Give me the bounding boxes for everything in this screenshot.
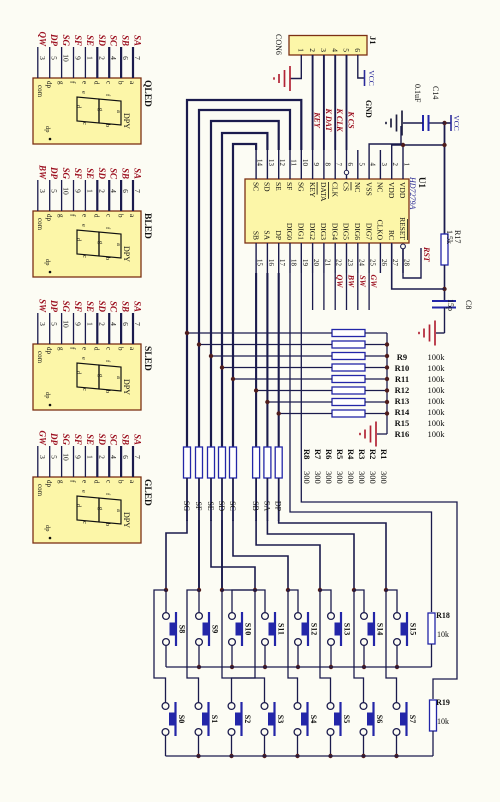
svg-text:6: 6 — [121, 322, 130, 326]
wire pin c of QLED — [108, 47, 110, 78]
wire R9 to rail — [365, 332, 387, 334]
7-segment display QLED — [33, 78, 152, 144]
capacitor C14 0.1uF — [403, 84, 445, 131]
wire pin g of SLED — [61, 313, 63, 344]
wire jog to switch S15 — [386, 590, 397, 613]
svg-text:R14: R14 — [395, 407, 410, 417]
svg-text:SB: SB — [121, 301, 131, 312]
node rail2 junction — [361, 754, 365, 758]
svg-text:DPY: DPY — [122, 379, 131, 395]
wire jog to switch S10 — [232, 590, 255, 613]
wire S1 to rail2 — [198, 735, 200, 756]
ground C8 ground — [419, 321, 435, 346]
wire VDD feed to U1 pins 1,2 — [392, 145, 445, 150]
node key column SF junction — [197, 588, 201, 592]
svg-text:300: 300 — [335, 471, 345, 484]
svg-text:S1: S1 — [210, 715, 219, 723]
svg-text:SD: SD — [217, 501, 226, 511]
svg-text:300: 300 — [346, 471, 356, 484]
svg-text:NC: NC — [376, 182, 385, 192]
svg-text:GW: GW — [369, 275, 378, 289]
svg-text:VCC: VCC — [452, 115, 461, 130]
svg-text:100k: 100k — [428, 429, 446, 439]
svg-text:a: a — [115, 243, 122, 246]
svg-text:SB: SB — [251, 231, 260, 240]
wire SG after resistor — [186, 478, 188, 521]
wire SC fan corner — [233, 520, 288, 590]
svg-text:S14: S14 — [376, 623, 385, 635]
wire S12 to rail1 — [297, 645, 299, 667]
ground C14 ground — [386, 111, 402, 136]
svg-text:e: e — [80, 224, 87, 227]
svg-text:SE: SE — [85, 35, 95, 46]
resistor R1 300 body — [184, 447, 191, 478]
node rail junction — [385, 377, 389, 381]
wire R12 to rail — [365, 367, 387, 369]
svg-text:DPY: DPY — [122, 512, 131, 528]
svg-text:R19: R19 — [436, 698, 450, 707]
svg-text:S3: S3 — [276, 715, 285, 723]
svg-text:13: 13 — [267, 159, 275, 167]
wire pin c of BLED — [108, 180, 110, 211]
node rail2 junction — [262, 754, 266, 758]
power VCC main — [445, 122, 452, 124]
resistor R8 300 body — [275, 447, 282, 478]
node SD tap — [220, 365, 224, 369]
wire pin g of BLED — [61, 180, 63, 211]
svg-text:DIG7: DIG7 — [364, 223, 373, 240]
node VDD tap — [442, 143, 446, 147]
svg-text:BW: BW — [37, 164, 47, 180]
wire U1 pin 25 — [368, 273, 370, 310]
pin 19 DIG1 of U1 — [297, 223, 309, 273]
svg-text:16: 16 — [267, 259, 275, 267]
svg-text:5: 5 — [50, 322, 59, 326]
svg-text:g: g — [57, 480, 65, 484]
wire VSS to ground — [369, 126, 401, 150]
svg-text:SA: SA — [133, 434, 143, 445]
svg-text:SC: SC — [228, 501, 237, 511]
switch S5 — [327, 702, 351, 736]
svg-text:10k: 10k — [437, 630, 449, 639]
svg-text:1: 1 — [85, 56, 94, 60]
wire J1 to U1 net KEY — [312, 55, 314, 150]
svg-text:SD: SD — [263, 182, 272, 192]
wire SF after resistor — [198, 478, 200, 590]
svg-text:K CLK: K CLK — [335, 108, 344, 133]
svg-text:20: 20 — [312, 259, 320, 267]
svg-text:2: 2 — [391, 163, 399, 167]
wire SE after resistor — [210, 478, 212, 521]
svg-text:8: 8 — [323, 163, 331, 167]
wire pin d of QLED — [96, 47, 98, 78]
wire J1 to U1 net K CS — [346, 55, 348, 150]
svg-text:SD: SD — [97, 433, 107, 445]
wire R14 to rail — [365, 390, 387, 392]
wire R11 to SE line — [211, 355, 332, 357]
svg-text:300: 300 — [357, 471, 367, 484]
svg-text:SC: SC — [109, 301, 119, 313]
svg-text:SD: SD — [97, 167, 107, 179]
svg-text:SB: SB — [251, 501, 260, 511]
pin 27 RC of U1 — [387, 230, 399, 273]
svg-text:S5: S5 — [342, 715, 351, 723]
wire pin com of BLED — [37, 180, 39, 211]
svg-text:R11: R11 — [395, 374, 409, 384]
switch S9 — [196, 612, 220, 646]
wire R19 to key rail 2 — [432, 731, 434, 756]
svg-text:24: 24 — [357, 259, 365, 267]
svg-text:SF: SF — [194, 502, 203, 511]
svg-text:R13: R13 — [395, 396, 410, 406]
connector J1 CON6 — [274, 34, 378, 55]
wire R11 to rail — [365, 355, 387, 357]
svg-text:SF: SF — [73, 168, 83, 179]
svg-text:S10: S10 — [244, 623, 253, 635]
svg-text:c: c — [81, 521, 88, 524]
wire R13 to SC line — [233, 378, 332, 380]
svg-text:100k: 100k — [428, 396, 446, 406]
node key column DP junction — [384, 588, 388, 592]
wire U1 pin 12 SE staircase — [211, 121, 279, 447]
svg-text:SG: SG — [61, 34, 71, 46]
svg-text:e: e — [80, 490, 87, 493]
svg-text:15p: 15p — [446, 299, 455, 311]
wire pin dp of GLED — [49, 446, 51, 477]
wire R16 to rail — [365, 413, 387, 415]
wire C8 to ground — [436, 332, 445, 334]
wire pin a of QLED — [132, 47, 134, 78]
svg-text:VDD: VDD — [387, 182, 396, 199]
wire J1 pin6 to VCC — [358, 55, 365, 78]
svg-text:R16: R16 — [395, 429, 410, 439]
svg-text:S12: S12 — [310, 623, 319, 635]
svg-text:dp: dp — [44, 525, 51, 532]
svg-text:2: 2 — [97, 189, 106, 193]
svg-text:4: 4 — [109, 322, 118, 326]
svg-text:100k: 100k — [428, 374, 446, 384]
wire R12 to SD line — [222, 367, 332, 369]
wire U1 pin 14 SC staircase — [233, 144, 256, 447]
resistor R13 100k — [332, 376, 445, 407]
svg-text:QW: QW — [335, 275, 344, 289]
wire RC pin to junction — [392, 244, 445, 289]
wire U1 pin 21 — [323, 273, 325, 310]
wire R10 to rail — [365, 344, 387, 346]
svg-text:SC: SC — [109, 434, 119, 446]
svg-text:g: g — [57, 214, 65, 218]
wire R16 to DP line — [279, 413, 332, 415]
svg-text:SG: SG — [61, 300, 71, 312]
svg-text:25: 25 — [369, 259, 377, 267]
svg-text:100k: 100k — [428, 407, 446, 417]
svg-text:SE: SE — [85, 168, 95, 179]
wire RESET net RST — [403, 248, 421, 278]
wire pin dp of QLED — [49, 47, 51, 78]
svg-text:SA: SA — [133, 168, 143, 179]
switch S11 — [262, 612, 286, 646]
power VCC at J1 — [364, 70, 366, 86]
wire SG fan corner — [166, 520, 187, 590]
node rail2 junction — [229, 754, 233, 758]
svg-text:dp: dp — [45, 81, 53, 89]
wire pin g of QLED — [61, 47, 63, 78]
switch S6 — [360, 702, 384, 736]
svg-text:S8: S8 — [178, 625, 187, 633]
node SA tap — [265, 400, 269, 404]
wire jog to switch S12 — [288, 590, 298, 613]
svg-text:R12: R12 — [395, 385, 410, 395]
resistor R12 100k — [332, 364, 445, 395]
svg-text:3: 3 — [319, 48, 328, 52]
svg-text:CON6: CON6 — [274, 34, 283, 55]
capacitor C8 15p — [432, 299, 473, 333]
wire U1 pin 24 — [357, 273, 359, 310]
node rail2 junction — [328, 754, 332, 758]
svg-text:b: b — [104, 390, 111, 393]
wire S9 to rail1 — [198, 645, 200, 667]
svg-text:SF: SF — [73, 35, 83, 46]
svg-text:SA: SA — [262, 501, 271, 511]
wire pin f of QLED — [73, 47, 75, 78]
wire DIG0 feed to R18 — [290, 273, 432, 612]
switch S3 — [261, 702, 285, 736]
svg-text:1: 1 — [85, 189, 94, 193]
svg-text:3: 3 — [38, 455, 47, 459]
node key column SG junction — [164, 588, 168, 592]
wire DP after resistor — [278, 478, 280, 521]
svg-text:QLED: QLED — [142, 80, 152, 107]
svg-text:SF: SF — [285, 182, 294, 190]
svg-text:SA: SA — [263, 230, 272, 240]
wire branch to row2 S6 — [354, 590, 364, 703]
svg-text:300: 300 — [302, 471, 312, 484]
svg-text:100k: 100k — [428, 363, 446, 373]
svg-text:com: com — [36, 218, 44, 231]
svg-text:R10: R10 — [395, 363, 410, 373]
node rail junction — [385, 365, 389, 369]
svg-text:1: 1 — [297, 48, 306, 52]
svg-text:c: c — [104, 81, 112, 84]
pin 14 SC of U1 — [251, 150, 263, 191]
svg-text:d: d — [93, 81, 101, 85]
svg-text:10: 10 — [62, 54, 71, 62]
svg-text:g: g — [57, 81, 65, 85]
wire SF fan straight — [198, 520, 200, 590]
svg-text:DIG2: DIG2 — [308, 223, 317, 240]
svg-text:dp: dp — [44, 392, 51, 399]
svg-text:4: 4 — [109, 189, 118, 193]
node rail1 junction — [296, 665, 300, 669]
svg-text:d: d — [93, 214, 101, 218]
svg-text:SG: SG — [61, 433, 71, 445]
wire branch to row2 S7 — [386, 590, 397, 703]
svg-text:BLED: BLED — [142, 213, 152, 239]
svg-text:DP: DP — [49, 299, 59, 312]
svg-text:K DAT: K DAT — [324, 108, 333, 133]
wire U1 pin 13 SD staircase — [222, 133, 267, 447]
node rail1 junction — [230, 665, 234, 669]
wire J1 to U1 net K DAT — [323, 55, 325, 150]
switch S13 — [328, 612, 352, 646]
svg-text:SB: SB — [121, 168, 131, 179]
7-segment display SLED — [33, 344, 152, 410]
wire pin e of QLED — [84, 47, 86, 78]
pin 9 KEY of U1 — [308, 150, 320, 198]
wire pin e of BLED — [84, 180, 86, 211]
pin 15 SB of U1 — [251, 231, 263, 273]
wire pin com of QLED — [37, 47, 39, 78]
pin 13 SD of U1 — [263, 150, 275, 192]
pin 16 SA of U1 — [263, 230, 275, 273]
svg-text:3: 3 — [38, 56, 47, 60]
wire SD fan straight — [221, 520, 223, 590]
wire S13 to rail1 — [330, 645, 332, 667]
wire S15 to rail1 — [396, 645, 398, 667]
switch S2 — [228, 702, 252, 736]
wire pin dp of SLED — [49, 313, 51, 344]
svg-text:C14: C14 — [431, 86, 440, 99]
svg-text:R4: R4 — [346, 449, 356, 460]
wire R10 to SF line — [199, 344, 332, 346]
wire rail to ground stem — [377, 433, 387, 435]
svg-text:DIG3: DIG3 — [319, 223, 328, 240]
svg-text:1.5k: 1.5k — [445, 230, 454, 244]
wire R14 to SB line — [256, 390, 332, 392]
wire pin g of GLED — [61, 446, 63, 477]
switch S4 — [294, 702, 318, 736]
svg-text:VCC: VCC — [367, 70, 376, 85]
svg-text:KEY: KEY — [308, 182, 317, 198]
resistor R4 300 body — [219, 447, 226, 478]
pin 24 DIG6 of U1 — [353, 223, 365, 273]
svg-text:R2: R2 — [368, 449, 378, 459]
svg-text:e: e — [80, 91, 87, 94]
wire DIG1 feed to R19 — [301, 273, 457, 699]
svg-text:VDD: VDD — [398, 182, 407, 199]
wire pin f of SLED — [73, 313, 75, 344]
svg-text:c: c — [81, 388, 88, 391]
wire S5 to rail2 — [330, 735, 332, 756]
wire R15 to SA line — [267, 401, 332, 403]
wire pin f of GLED — [73, 446, 75, 477]
resistor R10 100k — [332, 341, 445, 373]
svg-text:HD7279A: HD7279A — [408, 176, 417, 210]
resistor R15 100k — [332, 399, 445, 429]
wire SC after resistor — [232, 478, 234, 521]
svg-text:S2: S2 — [243, 715, 252, 723]
svg-text:DPY: DPY — [122, 113, 131, 129]
switch S14 — [361, 612, 385, 646]
svg-text:DIG0: DIG0 — [285, 223, 294, 240]
pin 3 NC of U1 — [376, 150, 388, 192]
node SG tap — [185, 331, 189, 335]
svg-text:DIG5: DIG5 — [342, 223, 351, 240]
svg-text:SC: SC — [109, 168, 119, 180]
svg-text:300: 300 — [368, 471, 378, 484]
wire R15 to rail — [365, 401, 387, 403]
svg-text:6: 6 — [346, 163, 354, 167]
svg-text:SA: SA — [133, 301, 143, 312]
svg-text:b: b — [104, 124, 111, 127]
svg-text:2: 2 — [97, 56, 106, 60]
resistor R5 300 body — [230, 447, 237, 478]
svg-text:GLED: GLED — [142, 479, 152, 506]
svg-text:100k: 100k — [428, 352, 446, 362]
svg-text:e: e — [81, 214, 89, 217]
wire S10 to rail1 — [231, 645, 233, 667]
svg-text:3: 3 — [380, 163, 388, 167]
svg-text:6: 6 — [121, 189, 130, 193]
svg-text:6: 6 — [121, 56, 130, 60]
wire U1 pin 10 SG staircase — [187, 100, 301, 447]
svg-text:SE: SE — [274, 182, 283, 191]
svg-text:6: 6 — [121, 455, 130, 459]
wire S3 to rail2 — [264, 735, 266, 756]
svg-text:c: c — [104, 480, 112, 483]
svg-text:K CS: K CS — [347, 110, 356, 129]
svg-text:d: d — [93, 480, 101, 484]
wire to switch S8 — [165, 590, 167, 613]
svg-text:5: 5 — [50, 189, 59, 193]
switch S1 — [195, 702, 219, 736]
svg-text:4: 4 — [330, 48, 339, 52]
svg-text:9: 9 — [74, 189, 83, 193]
node open junction on CS line — [344, 170, 348, 174]
wire pin com of GLED — [37, 446, 39, 477]
svg-text:1: 1 — [403, 163, 411, 167]
pin 6 CS of U1 — [342, 150, 354, 191]
switch S10 — [229, 612, 253, 646]
svg-text:c: c — [81, 255, 88, 258]
svg-text:R18: R18 — [436, 611, 450, 620]
svg-text:R7: R7 — [313, 449, 323, 460]
svg-text:DPY: DPY — [122, 246, 131, 262]
wire S6 to rail2 — [363, 735, 365, 756]
resistor R14 100k — [332, 387, 445, 417]
wire SD after resistor — [221, 478, 223, 590]
wire branch to row2 S2 — [232, 590, 256, 703]
svg-text:26: 26 — [380, 259, 388, 267]
svg-text:SC: SC — [109, 35, 119, 47]
svg-text:5: 5 — [50, 455, 59, 459]
svg-text:SE: SE — [85, 434, 95, 445]
svg-text:dp: dp — [45, 480, 53, 488]
wire SB fan corner — [256, 520, 320, 590]
svg-text:5: 5 — [357, 163, 365, 167]
wire S11 to rail1 — [264, 645, 266, 667]
node VCC junction — [442, 121, 446, 125]
svg-text:c: c — [104, 214, 112, 217]
svg-text:28: 28 — [403, 259, 411, 267]
svg-text:SG: SG — [182, 501, 191, 511]
resistor R6 300 body — [253, 447, 260, 478]
svg-text:R15: R15 — [395, 418, 410, 428]
wire R17 to RC junction — [444, 265, 446, 301]
wire pin e of SLED — [84, 313, 86, 344]
wire DP fan corner — [279, 520, 386, 590]
pin 17 DP of U1 — [274, 230, 286, 273]
svg-text:11: 11 — [290, 159, 298, 166]
svg-text:g: g — [57, 347, 65, 351]
pin 23 DIG5 of U1 — [342, 223, 354, 273]
wire SE fan corner — [211, 520, 255, 590]
svg-text:DP: DP — [49, 166, 59, 179]
wire pin c of SLED — [108, 313, 110, 344]
wire pin b of GLED — [120, 446, 122, 477]
wire S4 to rail2 — [297, 735, 299, 756]
wire pin f of BLED — [73, 180, 75, 211]
